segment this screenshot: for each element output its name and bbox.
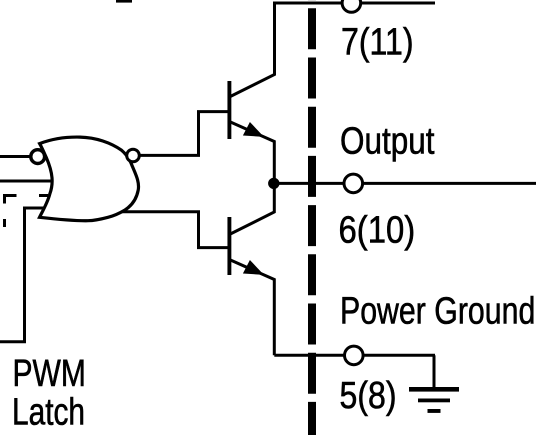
svg-text:6(10): 6(10) (339, 208, 416, 251)
svg-text:Latch: Latch (12, 391, 85, 434)
svg-text:5(8): 5(8) (340, 374, 397, 417)
svg-text:PWM: PWM (13, 352, 86, 395)
svg-text:Power Ground: Power Ground (340, 290, 535, 333)
svg-text:Output: Output (340, 119, 435, 162)
svg-text:7(11): 7(11) (341, 20, 414, 63)
